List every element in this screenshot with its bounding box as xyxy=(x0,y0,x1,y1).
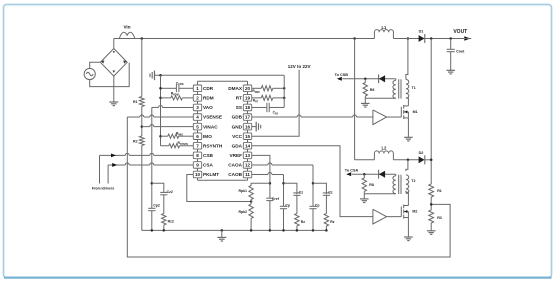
svg-text:VSENSE: VSENSE xyxy=(203,115,222,120)
wire ground rail xyxy=(142,229,327,231)
label R8A xyxy=(370,88,375,92)
label R8B xyxy=(369,183,374,187)
transformer T1 core xyxy=(399,79,401,98)
svg-text:CAOB: CAOB xyxy=(228,172,242,177)
svg-text:R1: R1 xyxy=(437,189,442,193)
svg-text:8: 8 xyxy=(196,153,199,158)
wire VREF to Rpk1 xyxy=(251,183,270,185)
pin 16 box xyxy=(243,123,251,130)
pin name GDB xyxy=(232,115,243,120)
wire CAOB route xyxy=(252,173,284,207)
label CpA xyxy=(315,204,320,208)
wire To CSB line xyxy=(342,78,395,80)
svg-text:20: 20 xyxy=(245,86,251,91)
label M1 xyxy=(413,110,418,114)
svg-text:3: 3 xyxy=(196,105,199,110)
node sense tap xyxy=(430,203,433,206)
pin 6 box xyxy=(193,133,201,140)
svg-text:R3: R3 xyxy=(437,216,442,220)
pin name CAOB xyxy=(228,172,242,177)
label R1 out xyxy=(437,189,442,193)
arrow To CSA xyxy=(346,172,351,176)
label D2 xyxy=(419,151,424,155)
capacitor Cz2 xyxy=(160,192,167,194)
label T1 xyxy=(412,86,416,90)
arrow To CSB xyxy=(337,77,342,81)
label RIMO xyxy=(176,132,183,137)
svg-text:Rz: Rz xyxy=(330,220,335,224)
resistor Rpk1 xyxy=(249,186,253,200)
diode D2 xyxy=(419,155,425,164)
wire To CSA line xyxy=(352,173,396,175)
svg-text:RDM: RDM xyxy=(203,96,214,101)
svg-text:VOUT: VOUT xyxy=(453,29,467,35)
label RRT xyxy=(253,99,259,104)
wire CAOA branch xyxy=(313,183,326,194)
svg-text:R2: R2 xyxy=(133,139,138,143)
capacitor CzA xyxy=(323,193,330,195)
node R8B top xyxy=(363,173,366,176)
node rail-R1 xyxy=(141,37,144,40)
chassis ground GND pin xyxy=(256,122,261,132)
wire top rail xyxy=(114,38,451,40)
label From Idrivers xyxy=(92,187,114,191)
pin name RT xyxy=(236,96,242,101)
wire ac to bridge top xyxy=(90,62,101,68)
wire RSYN to pin7 xyxy=(180,145,194,147)
resistor RzA xyxy=(324,214,328,227)
wire left bus xyxy=(160,75,162,145)
svg-text:2: 2 xyxy=(196,96,199,101)
resistor R2 xyxy=(139,136,144,146)
svg-text:11: 11 xyxy=(245,172,250,177)
label VOUT xyxy=(453,29,467,35)
wire Rpk2 bottom xyxy=(250,219,252,231)
label R2 xyxy=(133,139,138,143)
arrow into CSA xyxy=(112,163,117,167)
pin 5 box xyxy=(193,123,201,130)
svg-text:5: 5 xyxy=(196,124,199,129)
pin 19 box xyxy=(243,95,251,102)
resistor R8B xyxy=(362,174,366,191)
bridge rectifier xyxy=(100,49,127,77)
svg-text:GND: GND xyxy=(232,124,243,129)
node cout tap xyxy=(449,37,452,40)
pin 18 box xyxy=(243,104,251,111)
node bus-RDM xyxy=(159,97,162,100)
pin 1 box xyxy=(193,85,201,92)
wire CpA bottom xyxy=(312,209,314,231)
label Rpk2 xyxy=(238,210,247,214)
wire CSA row xyxy=(108,163,193,165)
wire GND stub xyxy=(252,126,257,128)
pin name VCC xyxy=(232,134,243,139)
pin name CAOA xyxy=(228,163,242,168)
resistor R1 xyxy=(139,97,144,107)
node VREF comp xyxy=(269,182,272,185)
svg-text:12V to 22V: 12V to 22V xyxy=(288,64,311,69)
capacitor CpB xyxy=(280,206,287,208)
svg-text:16: 16 xyxy=(245,124,251,129)
svg-text:4: 4 xyxy=(196,115,199,120)
ground R8A xyxy=(361,98,370,107)
svg-text:13: 13 xyxy=(245,153,251,158)
arrow into CSB xyxy=(111,153,116,157)
label RDMX xyxy=(252,89,260,94)
pin 2 box xyxy=(193,95,201,102)
label Cref xyxy=(272,197,280,201)
ground bridge xyxy=(109,76,118,106)
pin name IMO xyxy=(203,134,212,139)
pin 17 box xyxy=(243,114,251,121)
node L2-D2-T2 xyxy=(407,159,410,162)
pin 8 box xyxy=(193,152,201,159)
resistor RRT xyxy=(261,95,273,100)
wire R8B bottom xyxy=(363,191,365,193)
svg-text:T2: T2 xyxy=(411,179,415,183)
svg-text:Vin: Vin xyxy=(123,24,130,29)
svg-text:IMO: IMO xyxy=(203,134,212,139)
svg-text:7: 7 xyxy=(196,143,199,148)
label M2 xyxy=(412,210,417,214)
label Cout xyxy=(456,50,465,54)
resistor Rz2 xyxy=(162,214,166,226)
transistor M1 xyxy=(387,105,409,119)
wire bridge output to rail xyxy=(113,39,115,49)
pin name RSYNTH xyxy=(203,143,223,148)
wire output vertical xyxy=(430,39,432,185)
svg-text:18: 18 xyxy=(245,105,251,110)
node rail-phase-split xyxy=(353,37,356,40)
driver B xyxy=(373,209,387,224)
node VAO comp branch xyxy=(151,182,154,185)
svg-text:Cp2: Cp2 xyxy=(153,203,160,207)
svg-text:Cp: Cp xyxy=(315,204,320,208)
wire VINAC row xyxy=(142,125,194,127)
inductor Vin line-choke xyxy=(119,32,135,38)
capacitor CzB xyxy=(293,193,300,195)
capacitor CCDR xyxy=(176,85,179,93)
wire VAO branch xyxy=(152,183,164,192)
label L2 xyxy=(381,146,387,151)
svg-text:D2: D2 xyxy=(419,151,424,155)
wire RDM stub xyxy=(161,97,171,99)
svg-text:VREF: VREF xyxy=(229,153,242,158)
wire DMAX to rail xyxy=(273,87,284,89)
wire GDA line xyxy=(252,146,373,217)
node D2-out xyxy=(430,159,433,162)
label T2 xyxy=(411,179,415,183)
diode CT A xyxy=(379,74,386,83)
op-amp U1 UCC28070 body xyxy=(198,81,248,180)
wire phase B feed xyxy=(355,159,375,161)
svg-text:PKLMT: PKLMT xyxy=(203,172,219,177)
diode D1 xyxy=(393,34,424,43)
label To CSB xyxy=(335,73,349,77)
svg-text:CDR: CDR xyxy=(203,86,214,91)
svg-text:VINAC: VINAC xyxy=(203,124,218,129)
label 12V to 22V xyxy=(288,64,311,69)
svg-text:9: 9 xyxy=(196,163,199,168)
wire DMAX stub xyxy=(252,87,262,89)
label RzA xyxy=(330,220,335,224)
wire VAO vertical xyxy=(151,107,153,208)
pin name CDR xyxy=(203,86,214,91)
wire VAO row xyxy=(152,105,194,107)
label CpB xyxy=(285,204,290,208)
wire Rpk joint xyxy=(250,200,252,205)
wire RT to rail xyxy=(273,97,284,99)
label RzB xyxy=(301,220,306,224)
wire R1-R3 xyxy=(430,197,432,210)
pin 13 box xyxy=(243,152,251,159)
wire out to R1 xyxy=(430,183,432,185)
wire R8A bottom xyxy=(364,96,366,98)
pin name VSENSE xyxy=(203,115,222,120)
wire CpB bottom xyxy=(283,209,285,231)
wire CSA arrow tail xyxy=(107,165,109,184)
wire agnd line xyxy=(157,74,285,76)
pin 10 box xyxy=(193,171,201,178)
svg-text:15: 15 xyxy=(245,134,251,139)
wire Cz2-Rz2 xyxy=(163,195,165,214)
wire CDR stub xyxy=(161,87,177,89)
svg-text:DMAX: DMAX xyxy=(228,86,243,91)
arrow VOUT xyxy=(464,36,471,40)
ground Cout xyxy=(446,52,455,74)
wire R1-R2 xyxy=(141,107,143,137)
wire R1 top xyxy=(141,39,143,97)
node bus-IMO xyxy=(159,135,162,138)
pin name VAO xyxy=(203,105,213,110)
svg-text:Rpk2: Rpk2 xyxy=(238,210,247,214)
node rt-rail-dmax xyxy=(283,87,286,90)
resistor RSYN xyxy=(169,144,180,148)
label CzA xyxy=(328,190,333,194)
pin 11 box xyxy=(243,171,251,178)
svg-text:L2: L2 xyxy=(381,146,387,151)
wire VSENSE row xyxy=(127,115,193,117)
resistor R8A xyxy=(363,79,367,96)
wire RzA bottom xyxy=(325,226,327,230)
svg-text:SS: SS xyxy=(236,105,242,110)
pin 4 box xyxy=(193,114,201,121)
pin 15 box xyxy=(243,133,251,140)
wire CAOA route xyxy=(252,163,313,206)
pin name GND xyxy=(232,124,243,129)
node rail junction xyxy=(163,229,166,232)
border bottom accent xyxy=(4,276,552,278)
pin 20 box xyxy=(243,85,251,92)
transformer T2 primary xyxy=(406,160,409,203)
ground rail earth xyxy=(217,229,226,241)
node rt-rail-rt xyxy=(283,97,286,100)
inductor L2 xyxy=(374,151,393,160)
svg-text:M1: M1 xyxy=(413,110,418,114)
svg-text:R8: R8 xyxy=(369,183,374,187)
wire CzA-RzA xyxy=(325,195,327,213)
svg-text:RSYNTH: RSYNTH xyxy=(203,143,223,148)
wire RzB bottom xyxy=(296,226,298,230)
pin 12 box xyxy=(243,162,251,169)
pin name SS xyxy=(236,105,242,110)
transformer T1 primary xyxy=(406,39,409,106)
wire GDB line xyxy=(252,115,373,117)
pin name PKLMT xyxy=(203,172,219,177)
pin name RDM xyxy=(203,96,214,101)
pin name CSA xyxy=(203,163,214,168)
label Cp2 xyxy=(153,203,160,207)
label CSS xyxy=(273,110,279,115)
inductor L1 xyxy=(374,30,393,39)
label RSYN xyxy=(178,141,189,146)
label To CSA xyxy=(345,168,359,172)
ground M2 xyxy=(404,218,413,241)
svg-text:Cz2: Cz2 xyxy=(167,190,173,194)
label Rpk1 xyxy=(238,189,247,193)
svg-text:M2: M2 xyxy=(412,210,417,214)
svg-text:To CSB: To CSB xyxy=(335,73,349,77)
resistor RRDM xyxy=(171,96,183,100)
pin name VINAC xyxy=(203,124,218,129)
resistor RIMO xyxy=(168,134,179,138)
svg-text:6: 6 xyxy=(196,134,199,139)
ground M1 xyxy=(404,118,413,141)
resistor RDMX xyxy=(261,86,273,91)
capacitor Cp2 xyxy=(148,208,155,210)
wire RT stub xyxy=(252,97,262,99)
wire D1 cathode xyxy=(425,38,451,40)
svg-text:Cp: Cp xyxy=(285,204,290,208)
capacitor CpA xyxy=(309,206,316,208)
label CzB xyxy=(299,190,304,194)
label R3 xyxy=(437,216,442,220)
diode CT B xyxy=(379,170,386,179)
svg-text:Rz: Rz xyxy=(301,220,306,224)
transformer T2 core xyxy=(399,175,401,194)
wire VOUT arrow lead xyxy=(451,38,464,40)
svg-text:L1: L1 xyxy=(381,25,387,30)
ground R8B xyxy=(360,194,369,203)
capacitor CSS xyxy=(267,103,269,112)
wire R2 bottom xyxy=(141,146,143,231)
wire ac to bridge right xyxy=(90,63,130,87)
svg-text:14: 14 xyxy=(245,143,251,148)
svg-text:CAOA: CAOA xyxy=(228,163,242,168)
svg-text:VCC: VCC xyxy=(232,134,243,139)
transformer T2 secondary xyxy=(364,174,396,194)
resistor RzB xyxy=(295,214,299,227)
wire phase feed vertical xyxy=(354,39,356,160)
wire IMO to pin6 xyxy=(179,135,194,137)
svg-text:Cref: Cref xyxy=(272,197,280,201)
svg-text:Cz: Cz xyxy=(299,190,304,194)
label RRDM xyxy=(171,92,179,97)
node PKLMT divider xyxy=(250,200,253,203)
capacitor Cout xyxy=(447,39,455,52)
wire CSB arrow tail xyxy=(99,155,101,183)
node bus-CDR xyxy=(159,87,162,90)
wire rt-rail xyxy=(283,75,285,107)
svg-text:Rz2: Rz2 xyxy=(168,219,174,223)
wire IMO stub xyxy=(161,135,168,137)
svg-text:Rpk1: Rpk1 xyxy=(238,189,247,193)
node CAOA comp xyxy=(312,182,315,185)
wire CzB-RzB xyxy=(296,195,298,213)
wire CDR to pin1 xyxy=(179,87,193,89)
node rail junction xyxy=(250,229,253,232)
node R8A top xyxy=(364,78,367,81)
node rail junction xyxy=(296,229,299,232)
node L1-D1-T1 xyxy=(407,37,410,40)
resistor R3 xyxy=(429,210,434,223)
label D1 xyxy=(419,30,424,34)
wire L2 to node xyxy=(393,159,418,161)
svg-text:Cz: Cz xyxy=(328,190,333,194)
wire Rz2 bottom xyxy=(163,225,165,230)
svg-text:VAO: VAO xyxy=(203,105,213,110)
pin 3 box xyxy=(193,104,201,111)
node CAOB comp xyxy=(282,182,285,185)
node out-top xyxy=(430,37,433,40)
pin name DMAX xyxy=(228,86,243,91)
svg-text:Cout: Cout xyxy=(456,50,465,54)
svg-text:CSB: CSB xyxy=(203,153,214,158)
capacitor Cref xyxy=(266,198,273,200)
svg-text:D1: D1 xyxy=(419,30,424,34)
transformer T1 secondary xyxy=(365,79,396,99)
svg-text:From Idrivers: From Idrivers xyxy=(92,187,114,191)
svg-text:GDB: GDB xyxy=(232,115,243,120)
svg-text:To CSA: To CSA xyxy=(345,168,359,172)
label L1 xyxy=(381,25,387,30)
label CCDR xyxy=(176,81,184,86)
wire VSENSE sense route xyxy=(127,117,450,257)
node rail junction xyxy=(312,229,315,232)
wire Cref bottom xyxy=(269,201,271,231)
chassis ground left xyxy=(150,71,157,81)
ground R3 xyxy=(427,223,436,234)
node rail junction xyxy=(282,229,285,232)
svg-text:19: 19 xyxy=(245,96,251,101)
wire D2 cathode xyxy=(425,159,431,161)
wire RSYNTH bus link xyxy=(161,145,169,147)
node VINAC divider xyxy=(141,125,144,128)
svg-text:1: 1 xyxy=(196,86,199,91)
node rail junction xyxy=(325,229,328,232)
node rail junction xyxy=(269,229,272,232)
svg-text:12: 12 xyxy=(245,163,251,168)
wire SS stub xyxy=(252,106,267,108)
label Vin xyxy=(123,24,130,29)
svg-text:R8: R8 xyxy=(370,88,375,92)
label Rz2 xyxy=(168,219,174,223)
pin name VREF xyxy=(229,153,242,158)
svg-text:RT: RT xyxy=(236,96,242,101)
node agnd-bus xyxy=(159,74,162,77)
label R1 xyxy=(133,100,138,104)
wire PKLMT route xyxy=(187,175,251,202)
pin 9 box xyxy=(193,162,201,169)
label Cz2 xyxy=(167,190,173,194)
resistor Rpk2 xyxy=(249,204,253,219)
pin name GDA xyxy=(232,143,243,148)
svg-text:17: 17 xyxy=(245,115,251,120)
node rail junction xyxy=(151,229,154,232)
pin 7 box xyxy=(193,142,201,149)
wire CSB row xyxy=(100,153,194,155)
driver A xyxy=(373,110,387,125)
